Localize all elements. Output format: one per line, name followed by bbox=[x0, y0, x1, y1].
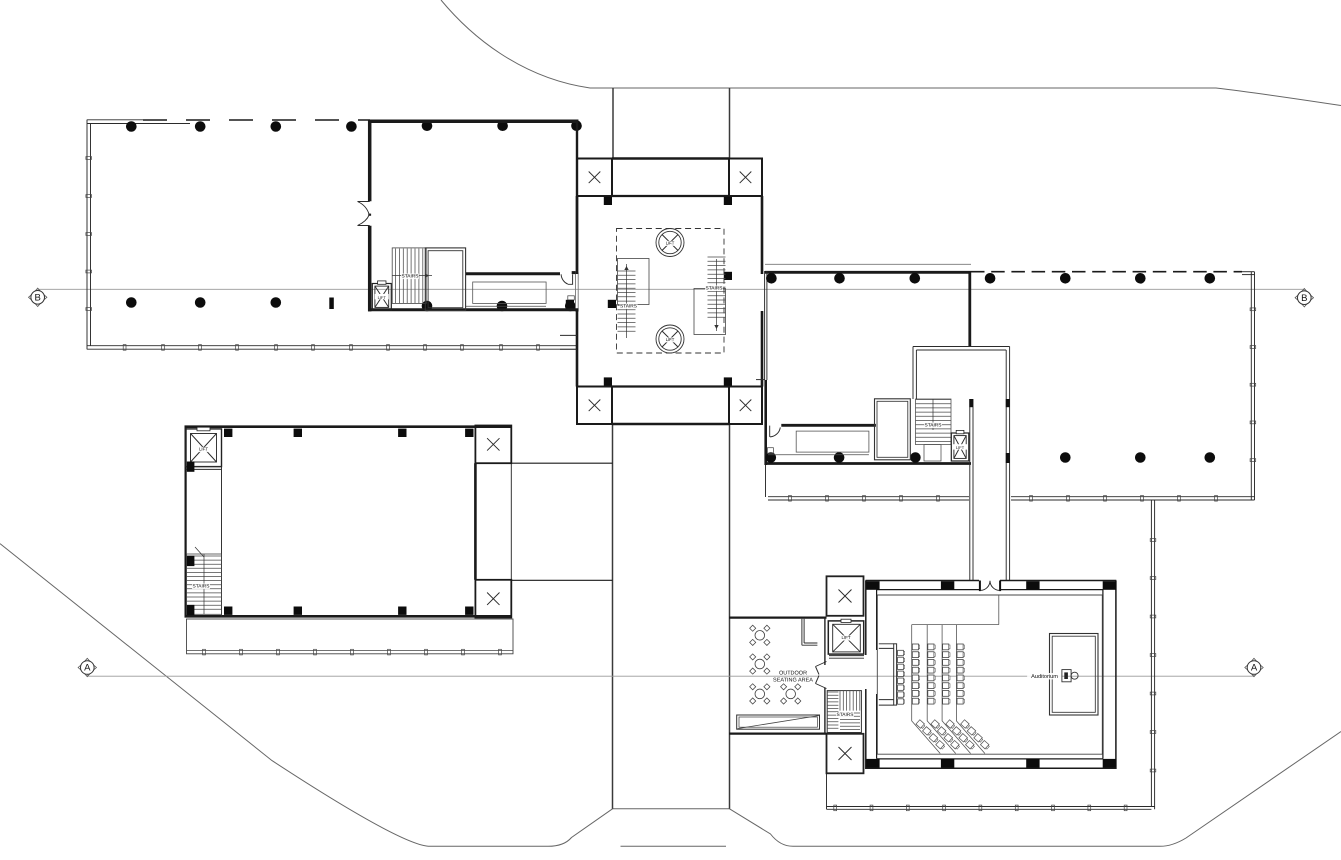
wing1 small wall pier bbox=[329, 298, 334, 310]
wing1 shaft room bbox=[425, 248, 465, 311]
core corner square SE bbox=[729, 387, 762, 425]
auditorium wall columns bbox=[866, 581, 879, 590]
auditorium corner square S bbox=[827, 734, 864, 774]
auditorium top wall bbox=[866, 580, 1117, 582]
auditorium door jambs bbox=[979, 581, 981, 592]
auditorium chair columns bbox=[912, 644, 918, 650]
svg-text:SEATING AREA: SEATING AREA bbox=[773, 677, 813, 683]
svg-text:STAIRS: STAIRS bbox=[925, 423, 942, 429]
auditorium stage room bbox=[1050, 634, 1099, 716]
auditorium bottom wall bbox=[866, 767, 1117, 769]
grid marker B left bbox=[37, 289, 39, 291]
svg-text:B: B bbox=[35, 293, 41, 304]
svg-text:OUTDOOR: OUTDOOR bbox=[779, 671, 807, 677]
wing1 columns inside room bottom row bbox=[422, 301, 433, 312]
auditorium left wall bbox=[865, 581, 867, 770]
core top bar bbox=[612, 157, 729, 160]
outdoor area top wall bbox=[729, 616, 827, 618]
auditorium head table bbox=[894, 644, 897, 705]
svg-text:STAIRS: STAIRS bbox=[620, 304, 637, 310]
core corner square NE bbox=[729, 159, 762, 197]
svg-text:LIFT: LIFT bbox=[956, 445, 965, 450]
wing1 bottom terrace edge (double with ticks) bbox=[87, 345, 578, 347]
wing2 canopy line bbox=[765, 263, 971, 265]
core columns bbox=[604, 197, 612, 205]
site boundary top-left curve bbox=[441, 0, 1341, 106]
road median bottom bbox=[621, 845, 727, 847]
road east line lower bbox=[729, 424, 731, 809]
svg-text:STAIRS: STAIRS bbox=[402, 274, 419, 280]
svg-text:A: A bbox=[1251, 663, 1258, 674]
outdoor tables bbox=[755, 631, 765, 641]
platform west stub bbox=[826, 773, 828, 809]
wing2 columns top row bbox=[766, 273, 777, 284]
wing2 room bbox=[875, 399, 911, 460]
core stairs west bbox=[618, 259, 650, 305]
core stairs east bbox=[694, 289, 726, 335]
wing3 corner square SE bbox=[475, 580, 511, 618]
wing1 top edge solid + dashed bbox=[87, 119, 143, 121]
svg-text:A: A bbox=[84, 663, 91, 674]
auditorium corner square N bbox=[827, 576, 864, 616]
corridor wall blacks bbox=[969, 399, 973, 407]
wing1 columns top row bbox=[126, 121, 137, 132]
core corner square NW bbox=[577, 159, 612, 197]
platform east edge double bbox=[1151, 500, 1154, 809]
core corner square SW bbox=[577, 387, 612, 425]
wing2 west wall bbox=[765, 271, 767, 380]
wing2 west door arc bbox=[769, 426, 771, 437]
auditorium inner boundary bbox=[877, 595, 1102, 754]
auditorium diagonal chairs bbox=[916, 720, 926, 729]
site boundary bottom-left bbox=[0, 544, 613, 847]
wing2 bottom terrace double bbox=[768, 497, 1255, 500]
wing2 east wall double bbox=[1250, 272, 1252, 500]
wing3 east outer edge bbox=[510, 426, 512, 618]
wing3 lift L4 bbox=[186, 429, 222, 467]
svg-text:LIFT: LIFT bbox=[666, 240, 675, 245]
wing1 left wall (double with ticks) bbox=[86, 120, 88, 350]
wing2 bottom wall west part bbox=[765, 462, 971, 465]
core lift circle north bbox=[656, 229, 684, 257]
outdoor L wall bbox=[802, 619, 818, 646]
entry splay bbox=[816, 662, 827, 689]
Auditorium label bbox=[1027, 673, 1062, 679]
svg-text:STAIRS: STAIRS bbox=[193, 584, 210, 590]
auditorium lift L3 bbox=[828, 621, 863, 654]
wing1 corridor bbox=[466, 272, 560, 275]
core west stub lines bbox=[560, 335, 577, 349]
grid marker A right bbox=[1253, 675, 1255, 677]
platform bottom edge double bbox=[827, 807, 1155, 810]
ramp bbox=[737, 715, 820, 729]
auditorium chairs col0 bbox=[898, 650, 904, 655]
svg-text:LIFT: LIFT bbox=[199, 447, 208, 452]
wing3 bottom wall bbox=[185, 615, 512, 618]
atrium corridor outline bbox=[913, 347, 1010, 400]
road west line upper bbox=[612, 88, 614, 159]
road east line upper bbox=[729, 88, 731, 159]
wing2 stairs S2 bbox=[916, 399, 952, 445]
svg-text:STAIRS: STAIRS bbox=[706, 286, 723, 292]
svg-text:LIFT: LIFT bbox=[841, 635, 850, 640]
grid line A bbox=[87, 675, 1254, 677]
wing1 inner room thick walls bbox=[368, 120, 578, 124]
road end connector bbox=[613, 808, 730, 810]
wing2 top edge dashed east part bbox=[971, 271, 1242, 273]
svg-text:Auditorium: Auditorium bbox=[1031, 673, 1058, 680]
wing1 west door (double leaf) bbox=[358, 202, 370, 226]
grid line B bbox=[38, 288, 1304, 290]
wing3 east inner wall bbox=[474, 463, 477, 580]
core west wall bbox=[576, 196, 579, 387]
wing1 lift L1 bbox=[372, 284, 391, 311]
grid marker B right bbox=[1303, 289, 1305, 291]
wing3 corner square NE bbox=[475, 426, 511, 464]
wing2 inner dividing wall bbox=[968, 271, 971, 346]
auditorium right wall bbox=[1115, 581, 1117, 770]
grid marker A left bbox=[86, 675, 88, 677]
wing2 corridor top wall bbox=[781, 424, 876, 427]
svg-text:B: B bbox=[1301, 293, 1307, 304]
wing3 stairs S4 bbox=[187, 554, 222, 614]
wing1 columns inside room top row bbox=[422, 120, 433, 131]
wing2 top wall west part bbox=[765, 271, 971, 274]
outdoor area east wall bbox=[824, 618, 826, 734]
site boundary bottom-right bbox=[730, 732, 1341, 847]
wing3 top wall bbox=[185, 425, 512, 428]
svg-text:STAIRS: STAIRS bbox=[837, 712, 854, 718]
wing3 columns bbox=[224, 429, 232, 437]
auditorium guide lines bbox=[912, 595, 999, 625]
wing2 lift L2 bbox=[951, 433, 969, 461]
outdoor area bottom wall bbox=[729, 732, 827, 734]
wing2 columns bottom row bbox=[766, 452, 777, 463]
wing3 porch bbox=[187, 619, 514, 654]
lectern symbol bbox=[1062, 670, 1071, 682]
svg-text:LIFT: LIFT bbox=[666, 337, 675, 342]
core east wall bbox=[761, 196, 764, 387]
road west line lower bbox=[612, 424, 614, 809]
core bottom bar bbox=[612, 385, 729, 387]
svg-text:LIFT: LIFT bbox=[378, 295, 387, 300]
wing1 columns bottom row bbox=[126, 297, 137, 308]
core dashed atrium rect bbox=[617, 229, 725, 354]
auditorium door arcs bbox=[981, 581, 1000, 591]
wing1 stairs S1 bbox=[392, 248, 426, 304]
auditorium stairs S3 bbox=[827, 691, 861, 733]
wing3 connector lines to road bbox=[511, 463, 612, 580]
wing3 left wall bbox=[185, 426, 187, 618]
wing3 west shaft bbox=[221, 467, 223, 617]
wing2 reception desk bbox=[796, 431, 869, 452]
